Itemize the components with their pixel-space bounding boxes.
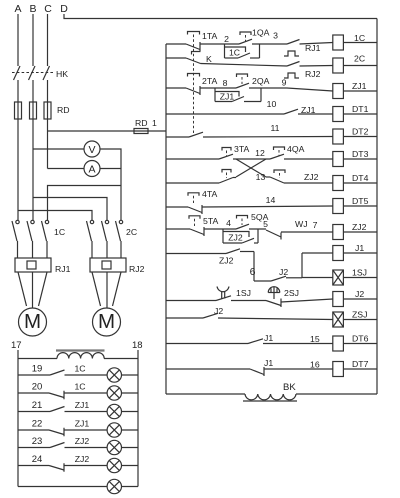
lamp row20 [107,386,138,400]
wire J1 coil branch [301,253,303,278]
svg-text:24: 24 [32,454,43,465]
svg-text:A: A [14,3,21,15]
wire rowDT5 left [166,206,188,208]
wire C return to 1C contact [48,186,122,221]
wire ladder left rail [165,44,167,394]
motor M2 [93,308,121,336]
contactor 1C main contact b [27,220,34,258]
wire rowBK right [296,393,377,395]
svg-text:DT3: DT3 [352,149,369,159]
voltmeter V [84,141,100,157]
wire row1SJ left [254,280,271,282]
contact ZJ2 rowJ1 [226,249,254,254]
wire rowZJ2 mid [204,228,236,230]
wire row11 [166,136,189,138]
svg-text:2C: 2C [126,227,137,237]
coil DT6 [333,334,377,352]
lamp row23 [107,440,138,454]
wire phase C top [47,14,49,66]
pushbutton 2QA [236,74,249,88]
svg-text:J1: J1 [355,243,364,253]
wire RJ1 to motor1 [18,272,47,308]
wire ladder right rail [376,19,378,395]
svg-text:RD: RD [57,105,70,115]
lamp row24 [107,458,138,472]
wire D to right rail [64,14,377,19]
wire C tap to 2C [120,186,122,221]
coil 2C [333,54,377,74]
svg-text:ZJ1: ZJ1 [75,400,90,410]
fuse RD pole B [30,102,37,119]
wire lamp top [18,358,138,360]
svg-text:K: K [206,54,212,64]
wire B to voltmeter [33,148,84,150]
wire X to 4QA lower [266,176,270,178]
svg-text:12: 12 [255,148,265,158]
wire row1 mid [200,43,239,45]
svg-text:4: 4 [226,218,231,228]
switch HK pole C [43,66,50,80]
svg-text:4QA: 4QA [287,144,305,154]
pushbutton 3TA upper [219,148,233,160]
svg-text:2SJ: 2SJ [284,288,299,298]
svg-text:1C: 1C [354,33,365,43]
wire RJ2 to motor2 [92,272,121,308]
svg-text:ZJ1: ZJ1 [75,419,90,429]
svg-text:18: 18 [132,340,143,351]
svg-text:5TA: 5TA [203,216,218,226]
svg-text:14: 14 [266,195,276,205]
wire C to ammeter [48,168,85,170]
svg-text:7: 7 [313,220,318,230]
wire rowJ2 left [166,300,216,302]
switch HK pole A [14,66,21,80]
svg-text:J2: J2 [355,289,364,299]
lamp bottom row wire [18,486,107,488]
pushbutton 5QA [236,216,249,230]
contact 1C row20 [18,391,107,399]
svg-text:J1: J1 [264,358,273,368]
svg-text:RJ2: RJ2 [305,69,321,79]
contact 1C self-hold branch [225,44,260,58]
contact ZJ2 self-hold branch [223,229,258,243]
svg-text:M: M [98,310,115,333]
svg-text:J2: J2 [279,267,288,277]
wire C down to ammeter row [47,119,49,169]
pushbutton 3TA lower [219,170,236,184]
svg-text:ZJ2: ZJ2 [228,233,243,243]
coil 1C [333,33,377,50]
svg-text:1SJ: 1SJ [352,268,367,278]
contactor 1C main contact c [42,220,49,258]
wire rowBK left [166,393,245,395]
wire rowDT3 right [284,158,333,160]
svg-text:ZJ2: ZJ2 [75,454,90,464]
contact J1 rowDT7 [250,367,333,376]
svg-text:RJ1: RJ1 [55,264,71,274]
svg-text:22: 22 [32,419,43,430]
wire lamp right rail [137,350,139,487]
LAMP-SECTION [11,340,143,494]
wire voltmeter to column [100,149,121,169]
svg-text:J2: J2 [214,306,223,316]
lamp bottom [107,479,138,493]
svg-text:1C: 1C [74,364,85,374]
pushbutton 1TA [186,32,200,52]
svg-text:A: A [88,164,95,176]
svg-text:11: 11 [270,123,279,133]
svg-text:RJ2: RJ2 [129,264,145,274]
svg-text:2TA: 2TA [202,76,217,86]
wire A mid [17,80,19,119]
wire rowDT5 right [202,206,333,207]
pushbutton 1QA [239,32,252,44]
thermal relay RJ1 [15,258,51,272]
thermal relay RJ2 [90,258,126,272]
contact ZJ1 row21 [18,407,107,412]
coil DT2 [333,127,377,145]
wire lamp left rail [17,350,19,487]
contact ZJ1 self-hold branch [215,88,261,102]
svg-text:20: 20 [32,382,43,393]
wire rowDT4 left [166,182,219,184]
lamp row21 [107,404,138,418]
delay contact 2SJ [266,287,281,307]
coil DT5 [333,196,377,214]
svg-text:ZJ1: ZJ1 [352,81,367,91]
svg-text:C: C [44,3,52,15]
svg-text:DT7: DT7 [352,359,369,369]
svg-text:ZSJ: ZSJ [352,310,367,320]
pushbutton 5TA [189,216,204,236]
svg-text:1C: 1C [74,382,85,392]
wire row3 mid [200,87,236,89]
contact J2 rowZSJ [203,313,333,319]
svg-text:WJ: WJ [295,219,308,229]
svg-text:15: 15 [310,334,320,344]
wire row3 left [166,87,186,89]
svg-text:1C: 1C [229,48,240,58]
svg-text:J1: J1 [264,333,273,343]
svg-text:4TA: 4TA [202,189,217,199]
wire rowDT7 left [166,368,250,370]
svg-text:B: B [29,3,36,15]
svg-text:ZJ2: ZJ2 [75,436,90,446]
coil ZSJ [333,310,377,328]
svg-text:16: 16 [310,360,320,370]
coil DT3 [333,149,377,167]
lamp row22 [107,423,138,437]
svg-text:8: 8 [223,78,228,88]
LADDER-SECTION [166,19,377,402]
coil J1 [333,243,377,261]
svg-text:DT5: DT5 [352,196,369,206]
svg-text:BK: BK [283,382,296,393]
svg-text:17: 17 [11,340,22,351]
thermal contact RJ1 [284,40,333,57]
svg-text:1C: 1C [54,227,65,237]
coil DT7 [333,359,377,377]
svg-text:2: 2 [224,34,229,44]
fuse RD pole C [44,102,51,119]
svg-text:ZJ1: ZJ1 [301,105,316,115]
thermal contact RJ2 [284,62,333,79]
svg-text:DT1: DT1 [352,104,369,114]
wire rowK right [201,64,288,67]
contact ZJ2 row24 [18,463,107,471]
wire B down to 1C contact [32,119,34,220]
wire rowJ2 mid [231,300,266,302]
wire B tap to 2C [33,198,107,221]
svg-text:DT2: DT2 [352,127,369,137]
svg-text:HK: HK [56,69,68,79]
svg-text:ZJ2: ZJ2 [352,222,367,232]
svg-text:9: 9 [282,78,287,88]
contact J2 row1SJ [271,276,302,281]
contact ZJ1 row10 [284,109,333,114]
svg-text:ZJ2: ZJ2 [304,172,319,182]
wire to 1SJ coil [302,277,333,279]
contact ZJ2 row23 [18,443,107,448]
contactor 1C main contact a [12,220,19,258]
svg-text:DT6: DT6 [352,334,369,344]
pushbutton 4QA lower [270,170,285,183]
wire cross connection [236,159,266,177]
inductor core bar [56,349,105,351]
MOTOR-SECTION [12,220,145,336]
wire rowDT4 right [284,182,333,184]
wire rowZJ2 mid2 [249,228,266,230]
ammeter A [84,161,100,177]
pushbutton 4TA [188,193,202,214]
wire B mid [32,80,34,119]
svg-text:5: 5 [263,219,268,229]
svg-text:1QA: 1QA [252,28,270,38]
svg-text:V: V [88,144,95,156]
svg-text:6: 6 [250,266,256,278]
inductor ballast winding [57,353,104,359]
svg-text:21: 21 [32,400,43,411]
svg-text:DT4: DT4 [352,173,369,183]
lamp row19 [107,368,138,382]
wire meter column down [120,169,122,186]
svg-text:3: 3 [273,31,278,41]
switch HK linkage dashed [12,72,53,74]
wire rowJ2 right [281,299,333,302]
contactor 2C main contact c [116,220,123,258]
fuse RD control [134,129,148,134]
wire C mid [47,80,49,119]
motor M1 [19,308,47,336]
svg-text:1TA: 1TA [202,31,217,41]
svg-text:10: 10 [267,99,277,109]
wire row3 right [249,88,333,91]
contact J1 rowDT6 [248,339,333,344]
mechanical linkage TA dashed [193,35,195,134]
winding BK [243,394,297,401]
coil DT1 [333,104,377,122]
wire phase A top [17,14,19,66]
wire rowJ1 left [166,253,226,255]
delay contact 1SJ [216,287,231,301]
wire phase B top [32,14,34,66]
wire row1 left [166,43,186,45]
wire A tap to 2C [18,211,92,221]
wire rowDT6 left [166,343,248,345]
svg-text:2QA: 2QA [252,76,270,86]
METER-SECTION [33,141,121,177]
svg-text:3TA: 3TA [234,144,249,154]
svg-text:2C: 2C [354,54,365,64]
svg-text:1SJ: 1SJ [236,288,251,298]
svg-text:RD: RD [135,118,148,128]
wire row10 [166,113,284,115]
contact TA row11 [189,132,333,137]
coil ZJ1 [333,81,377,99]
svg-text:M: M [24,310,41,333]
contact K [186,52,201,64]
svg-text:19: 19 [32,364,43,375]
svg-text:23: 23 [32,436,43,447]
svg-text:ZJ2: ZJ2 [219,256,234,266]
svg-text:D: D [60,3,68,15]
coil ZJ2 [333,222,377,240]
svg-text:13: 13 [256,172,266,182]
coil J2 [333,289,377,307]
coil DT4 [333,173,377,191]
contactor 2C main contact a [87,220,94,258]
wire to J1 coil [302,252,333,254]
svg-text:1: 1 [152,118,157,128]
coil 1SJ [333,268,377,286]
node 6 vertical [253,252,255,282]
contactor 2C main contact b [102,220,109,258]
fuse RD pole A [15,102,22,119]
wire rowZSJ left [166,317,203,319]
switch HK pole B [29,66,36,80]
svg-text:ZJ1: ZJ1 [220,92,235,102]
contact 1C row19 [18,370,107,375]
wire rowZJ2 left [166,228,190,230]
wire row1 right [252,43,287,45]
wire ammeter to column [100,168,121,170]
wire A down to 1C contact [17,119,19,220]
contact ZJ1 row22 [18,428,107,436]
wire rowK left [166,57,186,59]
wire rowDT3 mid [233,158,270,160]
svg-text:RJ1: RJ1 [305,43,321,53]
contact WJ [266,230,333,240]
PHASE-SECTION [12,3,377,220]
pushbutton 4QA upper [270,147,285,159]
pushbutton 2TA [186,74,200,96]
wire control feed from C [48,130,167,132]
wire rowDT3 left [166,158,219,160]
